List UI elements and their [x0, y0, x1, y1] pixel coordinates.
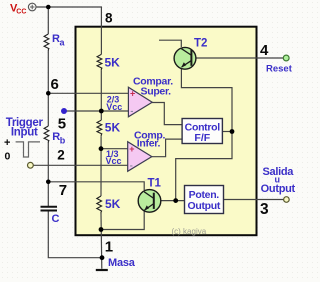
wire pin 6 threshold — [48, 92, 128, 94]
wire pin 5 control voltage — [64, 110, 128, 112]
svg-text:-: - — [130, 160, 133, 170]
comparator inferior (op-amp triangle) — [128, 142, 152, 172]
svg-text:5K: 5K — [105, 197, 121, 211]
svg-text:0: 0 — [5, 151, 11, 163]
svg-text:1: 1 — [105, 239, 113, 256]
wire Vcc top rail to pin 8 — [36, 7, 101, 54]
svg-text:2: 2 — [57, 148, 65, 163]
svg-text:+: + — [130, 88, 135, 98]
junction pin7 node — [46, 180, 51, 185]
junction Vcc/Ra — [46, 5, 51, 10]
svg-text:5: 5 — [58, 116, 66, 133]
wire internal rail 5K1 to 2/3 node — [100, 70, 102, 120]
svg-text:Infer.: Infer. — [137, 138, 161, 150]
svg-text:+: + — [129, 144, 134, 154]
svg-text:Masa: Masa — [108, 257, 136, 269]
resistor Rb — [44, 126, 49, 143]
wire node down-left to T1 base node — [176, 132, 232, 201]
Control F/F block — [182, 119, 222, 145]
comparator superior (op-amp triangle) — [128, 87, 152, 117]
wire collector feed to T2 — [159, 40, 181, 47]
resistor 5K upper — [97, 54, 102, 70]
wire pin 4 reset — [192, 57, 283, 59]
wire capacitor to ground run — [48, 212, 102, 258]
svg-text:C: C — [52, 213, 60, 225]
svg-text:6: 6 — [51, 76, 59, 93]
svg-text:+: + — [4, 137, 10, 149]
svg-text:T2: T2 — [194, 37, 207, 49]
wire pin 2 trigger — [33, 164, 127, 166]
junction pin6 node — [46, 91, 51, 96]
svg-text:T1: T1 — [148, 177, 162, 189]
wire pin 7 discharge to T1 collector — [48, 182, 144, 190]
wire pin 3 output — [224, 199, 284, 201]
ground symbol Masa — [96, 269, 108, 271]
wire T1 base to Poten Output — [155, 200, 185, 202]
resistor 5K middle — [97, 120, 102, 136]
junction capacitor/ground node — [100, 255, 105, 260]
resistor Ra — [44, 34, 49, 51]
wire 1/3 node to comparator inferior + — [101, 148, 128, 150]
pin 5 terminal blue dot — [61, 108, 67, 114]
junction 2/3 Vcc node — [99, 109, 104, 114]
svg-text:Vcc: Vcc — [106, 102, 122, 112]
svg-text:7: 7 — [59, 182, 67, 199]
Vcc supply terminal — [28, 3, 36, 11]
svg-text:F/F: F/F — [194, 132, 210, 144]
svg-text:4: 4 — [260, 42, 269, 59]
wire left rail Rb to capacitor — [47, 143, 49, 206]
pin 3 output terminal — [284, 197, 290, 203]
svg-text:5K: 5K — [105, 56, 121, 70]
wire T2 emitter down to node — [181, 69, 232, 132]
trigger pulse waveform — [16, 142, 40, 157]
wire T1 emitter to ground rail — [101, 210, 144, 230]
trigger input terminal — [28, 162, 34, 168]
IC box body — [76, 27, 257, 236]
svg-text:a: a — [60, 37, 66, 47]
resistor 5K lower — [97, 196, 102, 214]
svg-text:Reset: Reset — [266, 63, 293, 74]
capacitor C plates — [41, 206, 58, 208]
transistor T2 — [174, 47, 196, 69]
junction emitter/ground node — [99, 227, 104, 232]
Poten. Output block — [185, 186, 224, 214]
transistor T1 — [138, 190, 161, 213]
svg-text:Super.: Super. — [141, 86, 172, 98]
wire left rail upper (Vcc to Ra) — [47, 7, 49, 34]
svg-text:-: - — [130, 106, 133, 116]
wire internal rail 5K2 to 5K3 — [100, 136, 102, 196]
junction Control FF output node — [230, 129, 235, 134]
pin 4 reset terminal — [283, 55, 289, 61]
junction 1/3 Vcc node — [99, 146, 104, 151]
svg-text:Output: Output — [261, 183, 296, 195]
wire left rail Ra to Rb — [47, 51, 49, 126]
wire Control FF output to node — [222, 131, 232, 133]
junction T1 base node — [173, 198, 178, 203]
wire comparator superior output to Control FF — [152, 103, 182, 125]
svg-text:Vcc: Vcc — [106, 156, 122, 166]
svg-text:8: 8 — [105, 10, 113, 25]
svg-text:b: b — [60, 135, 66, 145]
svg-text:Input: Input — [11, 126, 38, 138]
svg-text:5K: 5K — [105, 121, 121, 135]
wire internal rail 5K3 to pin 1 ground — [100, 214, 103, 269]
wire comparator inferior output to Control FF — [152, 139, 183, 157]
svg-text:CC: CC — [16, 9, 26, 16]
svg-text:3: 3 — [260, 201, 269, 218]
svg-text:(c) kagiva: (c) kagiva — [172, 227, 207, 236]
svg-text:Output: Output — [187, 200, 220, 212]
